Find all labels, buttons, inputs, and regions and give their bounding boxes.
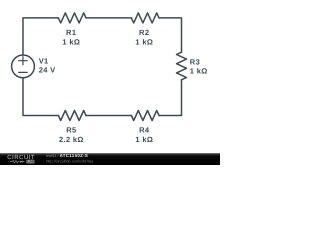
wire top-left from V1 top to R1	[23, 18, 58, 55]
svg-text:R4: R4	[139, 125, 150, 134]
svg-text:1 kΩ: 1 kΩ	[135, 135, 153, 144]
logo wire squiggle	[10, 160, 19, 163]
svg-text:V1: V1	[39, 57, 49, 66]
svg-text:R5: R5	[66, 125, 76, 134]
svg-text:http://circuitlab.com/c/6t76ja: http://circuitlab.com/c/6t76ja	[46, 160, 94, 164]
V1 plus sign	[19, 57, 28, 65]
resistor R2	[131, 13, 159, 23]
resistor R3	[177, 52, 187, 80]
svg-text:1 kΩ: 1 kΩ	[190, 66, 208, 75]
svg-text:R3: R3	[190, 58, 200, 67]
svg-text:1 kΩ: 1 kΩ	[135, 37, 153, 46]
resistor R1	[58, 13, 86, 23]
logo LAB box	[26, 160, 34, 164]
svg-text:mef11 / ATC1150Z-S: mef11 / ATC1150Z-S	[46, 153, 88, 158]
logo diode symbol	[20, 161, 22, 163]
svg-text:LAB: LAB	[27, 160, 35, 164]
svg-text:2.2 kΩ: 2.2 kΩ	[59, 135, 84, 144]
wire between R1 and R2	[86, 17, 131, 19]
voltage source V1 circle	[12, 55, 35, 78]
svg-text:R2: R2	[139, 28, 149, 37]
svg-text:1 kΩ: 1 kΩ	[62, 37, 80, 46]
svg-text:24 V: 24 V	[39, 66, 56, 75]
resistor R5	[58, 111, 86, 121]
V1 minus sign	[19, 71, 28, 73]
resistor R4	[131, 111, 159, 121]
svg-text:R1: R1	[66, 28, 76, 37]
wire R5 to bottom-left corner up to V1 bottom	[23, 78, 58, 116]
wire R2 to top-right corner down to R3	[159, 18, 182, 52]
wire between R4 and R5	[86, 115, 131, 117]
wire R3 to bottom-right corner to R4	[159, 80, 182, 116]
